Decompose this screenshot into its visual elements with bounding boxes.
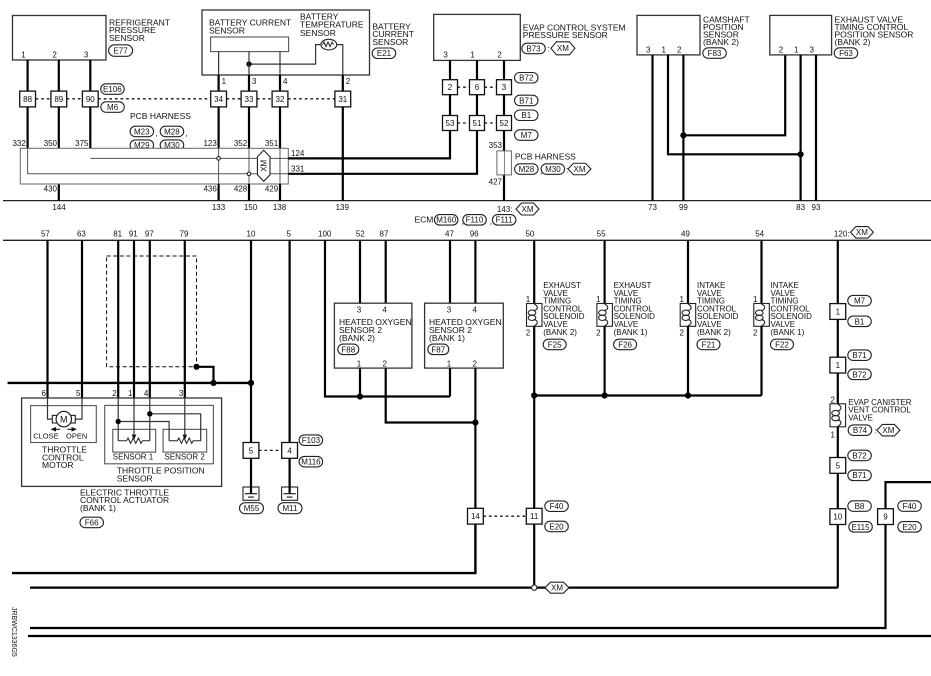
svg-text:(BANK 1): (BANK 1): [771, 328, 805, 337]
battery current sensor box: [202, 10, 370, 75]
connector F40 oval: [545, 501, 569, 512]
svg-text:2: 2: [497, 51, 502, 60]
svg-text:(BANK 2): (BANK 2): [697, 328, 731, 337]
wire 429 to ECM pin 138: [279, 184, 281, 201]
wire ECM 5 to connector 4 and ground M11: [289, 240, 291, 442]
open junction wire124 to wire 436: [217, 157, 221, 161]
svg-text:XM: XM: [557, 44, 569, 53]
svg-text:F63: F63: [839, 49, 853, 58]
sensor1 resistor: [118, 438, 150, 443]
wire connector 4 to ground: [289, 458, 291, 493]
svg-text:353: 353: [489, 141, 503, 150]
svg-text:F25: F25: [548, 340, 562, 349]
internal wire pin 3: [248, 52, 250, 75]
svg-text:JRBWC1336G5: JRBWC1336G5: [10, 607, 17, 657]
wire ECM to solenoid F25: [533, 240, 535, 303]
svg-text:XM: XM: [856, 228, 868, 237]
svg-text:E77: E77: [113, 46, 128, 55]
svg-text:M116: M116: [301, 458, 321, 467]
svg-text:96: 96: [470, 230, 479, 239]
wire ECM 79 to TPS pin 3: [184, 240, 186, 398]
shield drain wire to ground line: [197, 367, 214, 383]
svg-text:139: 139: [336, 203, 350, 212]
connector 33: [241, 91, 257, 107]
wire valve to connector 5: [837, 427, 839, 458]
svg-text:331: 331: [291, 164, 305, 173]
wire connector 5 to connector 10: [837, 473, 839, 508]
wire ECM 81 to TPS pin 2: [117, 240, 119, 398]
connector 32: [272, 91, 288, 107]
svg-text:100: 100: [318, 230, 332, 239]
svg-text:E20: E20: [549, 522, 564, 531]
svg-text:34: 34: [214, 95, 223, 104]
wire 350/430 from connector 89 to ECM pin 144: [58, 107, 60, 201]
ECM pin label 143 with XM hexagon: [497, 203, 539, 215]
svg-text:CLOSE: CLOSE: [33, 431, 58, 440]
svg-text:87: 87: [380, 230, 389, 239]
thermistor left lead wire: [249, 45, 321, 65]
wire 331 to EVAP connector column: [288, 130, 477, 174]
TPS pin2 wire into sensor1 left: [117, 398, 119, 441]
wire connector 3 to 52: [503, 95, 505, 116]
svg-text:SENSOR: SENSOR: [372, 37, 408, 47]
svg-text:M: M: [60, 414, 68, 424]
svg-text:120:: 120:: [834, 230, 850, 239]
wire EVAP pin3 to connector 2: [449, 60, 451, 79]
solenoid valve F21: [680, 281, 739, 350]
svg-text:351: 351: [265, 139, 279, 148]
svg-text:B72: B72: [852, 451, 867, 460]
svg-text:429: 429: [265, 185, 279, 194]
wire ECM 100 heater supply: [325, 240, 450, 396]
thin wire 436 inside PCB box: [218, 148, 220, 184]
svg-text:B1: B1: [855, 317, 865, 326]
svg-text:E21: E21: [377, 49, 392, 58]
wire pin3 to connector 90: [89, 60, 91, 91]
svg-text:3: 3: [810, 45, 815, 54]
svg-text:5: 5: [836, 461, 841, 470]
svg-text:3: 3: [179, 389, 184, 398]
svg-text:11: 11: [530, 512, 539, 521]
svg-text:F88: F88: [341, 345, 355, 354]
ECM label with connectors M160 F110 F111: [415, 215, 516, 227]
svg-text:XM: XM: [574, 165, 586, 174]
svg-text:E106: E106: [103, 85, 122, 94]
wire pin4 to connector 32: [279, 75, 281, 91]
connector 5 right: [830, 458, 846, 474]
refrigerant pressure sensor box E77: [13, 16, 170, 61]
connector M6 label: [101, 102, 125, 113]
svg-text:57: 57: [41, 230, 50, 239]
junction dot camshaft pin2 branch: [680, 132, 686, 138]
svg-text:SENSOR: SENSOR: [109, 33, 145, 43]
B72 oval: [848, 369, 872, 380]
svg-text:(BANK 1): (BANK 1): [614, 328, 648, 337]
svg-text:93: 93: [812, 203, 821, 212]
wire solenoid F22 to common: [760, 326, 762, 395]
ECM top bus line: [3, 200, 931, 202]
svg-text:53: 53: [446, 119, 455, 128]
thin wire 428 inside PCB box: [248, 148, 250, 184]
svg-text:B1: B1: [521, 111, 531, 120]
svg-text:1: 1: [662, 45, 667, 54]
svg-text:375: 375: [75, 139, 89, 148]
junction dot solenoid F21: [685, 392, 691, 398]
svg-text:1: 1: [357, 359, 362, 368]
svg-text:,: ,: [490, 216, 492, 226]
svg-text:1: 1: [128, 389, 133, 398]
wire HO2S bank2 pin2 to joint: [386, 368, 476, 422]
bottom line 4: [28, 635, 931, 637]
svg-text:90: 90: [86, 95, 95, 104]
svg-text:88: 88: [23, 95, 32, 104]
EVAP control system pressure sensor box B73: [434, 14, 626, 60]
bottom ground bus with XM: [30, 586, 838, 588]
electric throttle control actuator box F66: [22, 398, 222, 486]
svg-text:(BANK 2): (BANK 2): [703, 37, 739, 47]
svg-text:1: 1: [447, 359, 452, 368]
wire ECM 91 to TPS pin 1: [133, 240, 135, 398]
wire connector 5 to ground: [250, 458, 252, 493]
motor M symbol: [52, 411, 75, 426]
svg-text:F103: F103: [302, 436, 321, 445]
thin wire 124 inside PCB box: [90, 157, 288, 159]
connector F103 oval: [299, 435, 323, 446]
svg-text:XM: XM: [260, 159, 269, 171]
svg-text:3: 3: [443, 51, 448, 60]
connector 88: [20, 91, 36, 107]
svg-text:55: 55: [597, 230, 606, 239]
sensor 2 box: [163, 429, 207, 452]
svg-text:49: 49: [681, 230, 690, 239]
connector 10: [830, 509, 846, 525]
connector 1 upper: [830, 304, 846, 320]
wire camshaft pin2 to ECM pin 99: [682, 55, 684, 201]
svg-text:2: 2: [382, 359, 387, 368]
junction dot pin2 wires: [472, 419, 478, 425]
wire 353/427 from connector 52 to ECM 143: [503, 131, 505, 152]
dashed mating line 2-6-3: [458, 86, 497, 88]
wire solenoid F25 to common: [533, 326, 535, 395]
svg-text:SENSOR 1: SENSOR 1: [113, 453, 154, 462]
svg-text:1: 1: [21, 51, 26, 60]
connector 31: [335, 91, 351, 107]
svg-text:,: ,: [186, 128, 188, 138]
wire connector 9 down to bottom line: [30, 525, 886, 629]
PCB HARNESS label with M28 M30 XM: [515, 151, 591, 175]
svg-text:6: 6: [42, 389, 47, 398]
ground M11: [278, 487, 302, 514]
connector 52: [497, 116, 512, 131]
wire ECM 63 to throttle motor pin 5: [81, 240, 83, 398]
connector 9: [878, 509, 894, 525]
B72 oval: [848, 450, 872, 461]
solenoid common ground line: [534, 394, 761, 396]
wire HO2S bank1 pin2 down to connector 14: [474, 368, 476, 508]
throttle position sensor box: [105, 405, 214, 463]
wire ECM to solenoid F21: [687, 240, 689, 303]
pin number labels 1 3 4 2: [222, 77, 351, 86]
svg-text:SENSOR 2: SENSOR 2: [164, 453, 205, 462]
svg-text:SENSOR: SENSOR: [300, 28, 336, 38]
wire ECM 87 to HO2S bank2 pin4: [385, 240, 387, 303]
F40 oval right: [898, 501, 922, 512]
heated oxygen sensor 2 bank 2 box F88: [334, 303, 412, 368]
svg-text:2: 2: [112, 389, 117, 398]
wire pin1 to connector 88: [27, 60, 29, 91]
junction dot solenoid F26: [602, 392, 608, 398]
svg-text:150: 150: [244, 203, 258, 212]
wire 139 from connector 31 to ECM pin 139: [342, 107, 344, 201]
TPS ground branch to sensor2 right: [150, 414, 201, 441]
junction dot ground line to column 10: [248, 380, 254, 386]
wire labels 430 436 428 429: [44, 185, 279, 194]
svg-text:52: 52: [356, 230, 365, 239]
svg-text:2: 2: [52, 51, 57, 60]
connector M116 oval: [299, 456, 323, 467]
battery current sensor outer label E21: [372, 21, 414, 58]
wire 428 to ECM pin 150: [248, 184, 250, 201]
svg-text:3: 3: [357, 305, 362, 314]
wire ECM 57 to throttle motor pin 6: [46, 240, 48, 398]
solenoid valve F22: [753, 281, 812, 350]
svg-text:1: 1: [222, 77, 227, 86]
connector ovals B72 B71 B1 M7: [515, 73, 539, 141]
E115 oval: [849, 522, 873, 533]
svg-text:F40: F40: [550, 502, 564, 511]
svg-text:VALVE: VALVE: [848, 413, 873, 422]
connector 2: [443, 80, 458, 95]
svg-text:3: 3: [502, 83, 507, 92]
wire ECM to solenoid F22: [760, 240, 762, 303]
svg-text:332: 332: [12, 139, 26, 148]
wire camshaft pin1 elbow to exhaust sensor pin1: [668, 55, 801, 154]
svg-text:PRESSURE SENSOR: PRESSURE SENSOR: [523, 30, 608, 40]
junction dot shield drain: [193, 364, 199, 370]
svg-text:(BANK 1): (BANK 1): [429, 333, 465, 343]
wire 436 to ECM pin 133: [218, 184, 220, 201]
svg-text:436: 436: [203, 185, 217, 194]
svg-text:430: 430: [44, 185, 58, 194]
open junction circle at XM joint: [532, 585, 537, 590]
svg-text:51: 51: [473, 119, 482, 128]
battery temperature sensor thermistor: [321, 39, 337, 50]
connector 3: [497, 80, 512, 95]
svg-text:427: 427: [489, 178, 503, 187]
svg-text:99: 99: [679, 203, 688, 212]
svg-text:B72: B72: [852, 370, 867, 379]
dashed connector mating line 88-89-90-34-33-32-31: [36, 98, 335, 100]
svg-text:1: 1: [836, 307, 841, 316]
close arrow: [51, 427, 61, 432]
PCB harness pass-through box: [497, 151, 512, 175]
svg-text:3: 3: [646, 45, 651, 54]
B8 oval: [848, 501, 872, 512]
svg-text:M23: M23: [134, 127, 150, 136]
wire ECM 47 to HO2S bank1 pin3: [449, 240, 451, 303]
svg-text:F26: F26: [618, 340, 632, 349]
wire ECM 52 to HO2S bank2 pin3: [359, 240, 361, 303]
open arrow: [68, 427, 78, 432]
svg-text:2: 2: [680, 329, 685, 338]
exhaust valve timing control position sensor box F63: [770, 14, 914, 58]
svg-text:E20: E20: [902, 523, 917, 532]
svg-text:1: 1: [794, 45, 799, 54]
wire 352 from connector 33: [248, 107, 250, 148]
svg-text:M28: M28: [519, 165, 535, 174]
svg-text:PCB HARNESS: PCB HARNESS: [130, 111, 191, 121]
junction dot exhaust pin1: [798, 151, 804, 157]
svg-text::: :: [548, 44, 550, 54]
E20 oval right: [898, 522, 922, 533]
svg-text:6: 6: [475, 83, 480, 92]
svg-text:M6: M6: [107, 103, 119, 112]
svg-text:52: 52: [500, 119, 509, 128]
wire labels 332 350 375 123 352 351: [12, 139, 278, 148]
connector F66 oval: [80, 517, 104, 528]
svg-text:83: 83: [796, 203, 805, 212]
shield dashed box: [107, 256, 197, 367]
connector 89: [51, 91, 67, 107]
connector 4: [282, 443, 298, 459]
svg-text:B73: B73: [526, 44, 541, 53]
junction dot solenoid F25: [531, 392, 537, 398]
svg-text:M7: M7: [521, 131, 533, 140]
wire exhaust pin1 to ECM pin 83: [799, 55, 801, 201]
svg-text:F83: F83: [708, 49, 722, 58]
wire HO2S bank2 pin1 down: [359, 368, 361, 396]
svg-text:1: 1: [836, 361, 841, 370]
svg-text:B8: B8: [855, 502, 865, 511]
wire connector 6 to 51: [476, 95, 478, 116]
svg-text:F87: F87: [431, 345, 445, 354]
wire solenoid F26 to common: [603, 326, 605, 395]
dashed mating line 14-11: [483, 515, 526, 517]
svg-text:F21: F21: [702, 340, 716, 349]
svg-text:124: 124: [291, 149, 305, 158]
wire pin2 to connector 89: [58, 60, 60, 91]
svg-text:1: 1: [680, 295, 685, 304]
svg-text:F66: F66: [85, 518, 99, 527]
svg-text:M11: M11: [283, 504, 299, 513]
wire connector 10 down to bottom bus: [837, 525, 839, 588]
wire exhaust pin3 to ECM pin 93: [815, 55, 817, 201]
wire pin1 to connector 34: [218, 75, 220, 91]
svg-text:SENSOR: SENSOR: [117, 474, 153, 484]
svg-text:F111: F111: [496, 216, 514, 225]
wire between connectors: [837, 319, 839, 357]
wire 351 from connector 32: [279, 107, 281, 148]
solenoid valve F26: [596, 281, 655, 350]
svg-text:14: 14: [471, 512, 480, 521]
connector 51: [470, 116, 485, 131]
svg-text:2: 2: [677, 45, 682, 54]
wire 375 from connector 90: [89, 107, 91, 158]
wire 124 to EVAP connector column: [288, 130, 450, 158]
svg-text:350: 350: [44, 139, 58, 148]
heated oxygen sensor 2 bank 1 box F87: [425, 303, 504, 368]
svg-text:B71: B71: [852, 471, 867, 480]
svg-text:4: 4: [382, 305, 387, 314]
svg-text:5: 5: [76, 389, 81, 398]
svg-text:1: 1: [831, 430, 836, 439]
svg-text:XM: XM: [551, 584, 563, 593]
svg-text:1: 1: [526, 295, 531, 304]
connector 6: [470, 80, 485, 95]
wire solenoid common down to connector 11: [533, 396, 535, 509]
svg-text:32: 32: [276, 95, 285, 104]
wire HO2S bank1 pin1 down: [449, 368, 451, 396]
svg-text:144: 144: [52, 203, 66, 212]
ECM pin labels 73 99 83 93: [648, 203, 821, 212]
branch wire to exhaust sensor pin2: [683, 55, 785, 135]
connector 5: [243, 443, 259, 459]
svg-text:2: 2: [448, 83, 453, 92]
svg-text:4: 4: [144, 389, 149, 398]
wire connector 11 down to XM joint: [533, 524, 535, 585]
svg-text:133: 133: [212, 203, 226, 212]
svg-text:143:: 143:: [497, 205, 513, 214]
svg-text:M30: M30: [545, 165, 561, 174]
svg-text:F40: F40: [903, 502, 917, 511]
connector E20 oval: [545, 521, 569, 532]
TPS pin4 wire into sensor1 right: [149, 398, 151, 441]
svg-text:2: 2: [779, 45, 784, 54]
svg-text:97: 97: [145, 230, 154, 239]
svg-text:9: 9: [883, 513, 888, 522]
svg-text:2: 2: [596, 329, 601, 338]
ground M55: [240, 487, 264, 514]
svg-text:B71: B71: [852, 351, 867, 360]
thin wire 331 inside PCB box: [28, 148, 289, 174]
svg-text:B72: B72: [519, 74, 534, 83]
svg-text:4: 4: [472, 305, 477, 314]
thin wire 429 inside PCB box: [279, 148, 281, 184]
M7 oval: [848, 295, 872, 306]
XM hexagon at ECM pin 120: [850, 227, 873, 239]
connector E106 label: [101, 84, 125, 95]
B71 oval: [848, 470, 872, 481]
svg-text:91: 91: [129, 230, 138, 239]
svg-text:MOTOR: MOTOR: [42, 460, 73, 470]
XM hexagon bottom: [545, 582, 569, 593]
connector 14: [468, 508, 484, 524]
wire from right edge to connector 9: [886, 482, 931, 509]
svg-text:SENSOR: SENSOR: [209, 25, 245, 35]
svg-text:XM: XM: [882, 426, 894, 435]
svg-text:PCB HARNESS: PCB HARNESS: [515, 151, 576, 161]
svg-text:(BANK 1): (BANK 1): [80, 503, 116, 513]
wire ECM to solenoid F26: [603, 240, 605, 303]
sensor 1 box: [113, 429, 156, 452]
wire camshaft pin3 to ECM pin 73: [651, 55, 653, 201]
svg-text:F22: F22: [775, 340, 789, 349]
svg-text:81: 81: [113, 230, 122, 239]
internal wire pin 1: [218, 52, 220, 75]
svg-text:73: 73: [648, 203, 657, 212]
svg-text:(BANK 2): (BANK 2): [339, 333, 375, 343]
ground bold line to column 10: [8, 382, 252, 384]
svg-text:B71: B71: [519, 96, 534, 105]
PCB HARNESS label top-left: [130, 111, 191, 152]
svg-text:89: 89: [54, 95, 63, 104]
svg-text:M28: M28: [164, 127, 180, 136]
PCB harness boundary box: [20, 148, 288, 184]
svg-text:1: 1: [596, 295, 601, 304]
connector 90: [82, 91, 98, 107]
svg-text:33: 33: [245, 95, 254, 104]
wire connector 14 down to bottom left run: [12, 524, 475, 573]
